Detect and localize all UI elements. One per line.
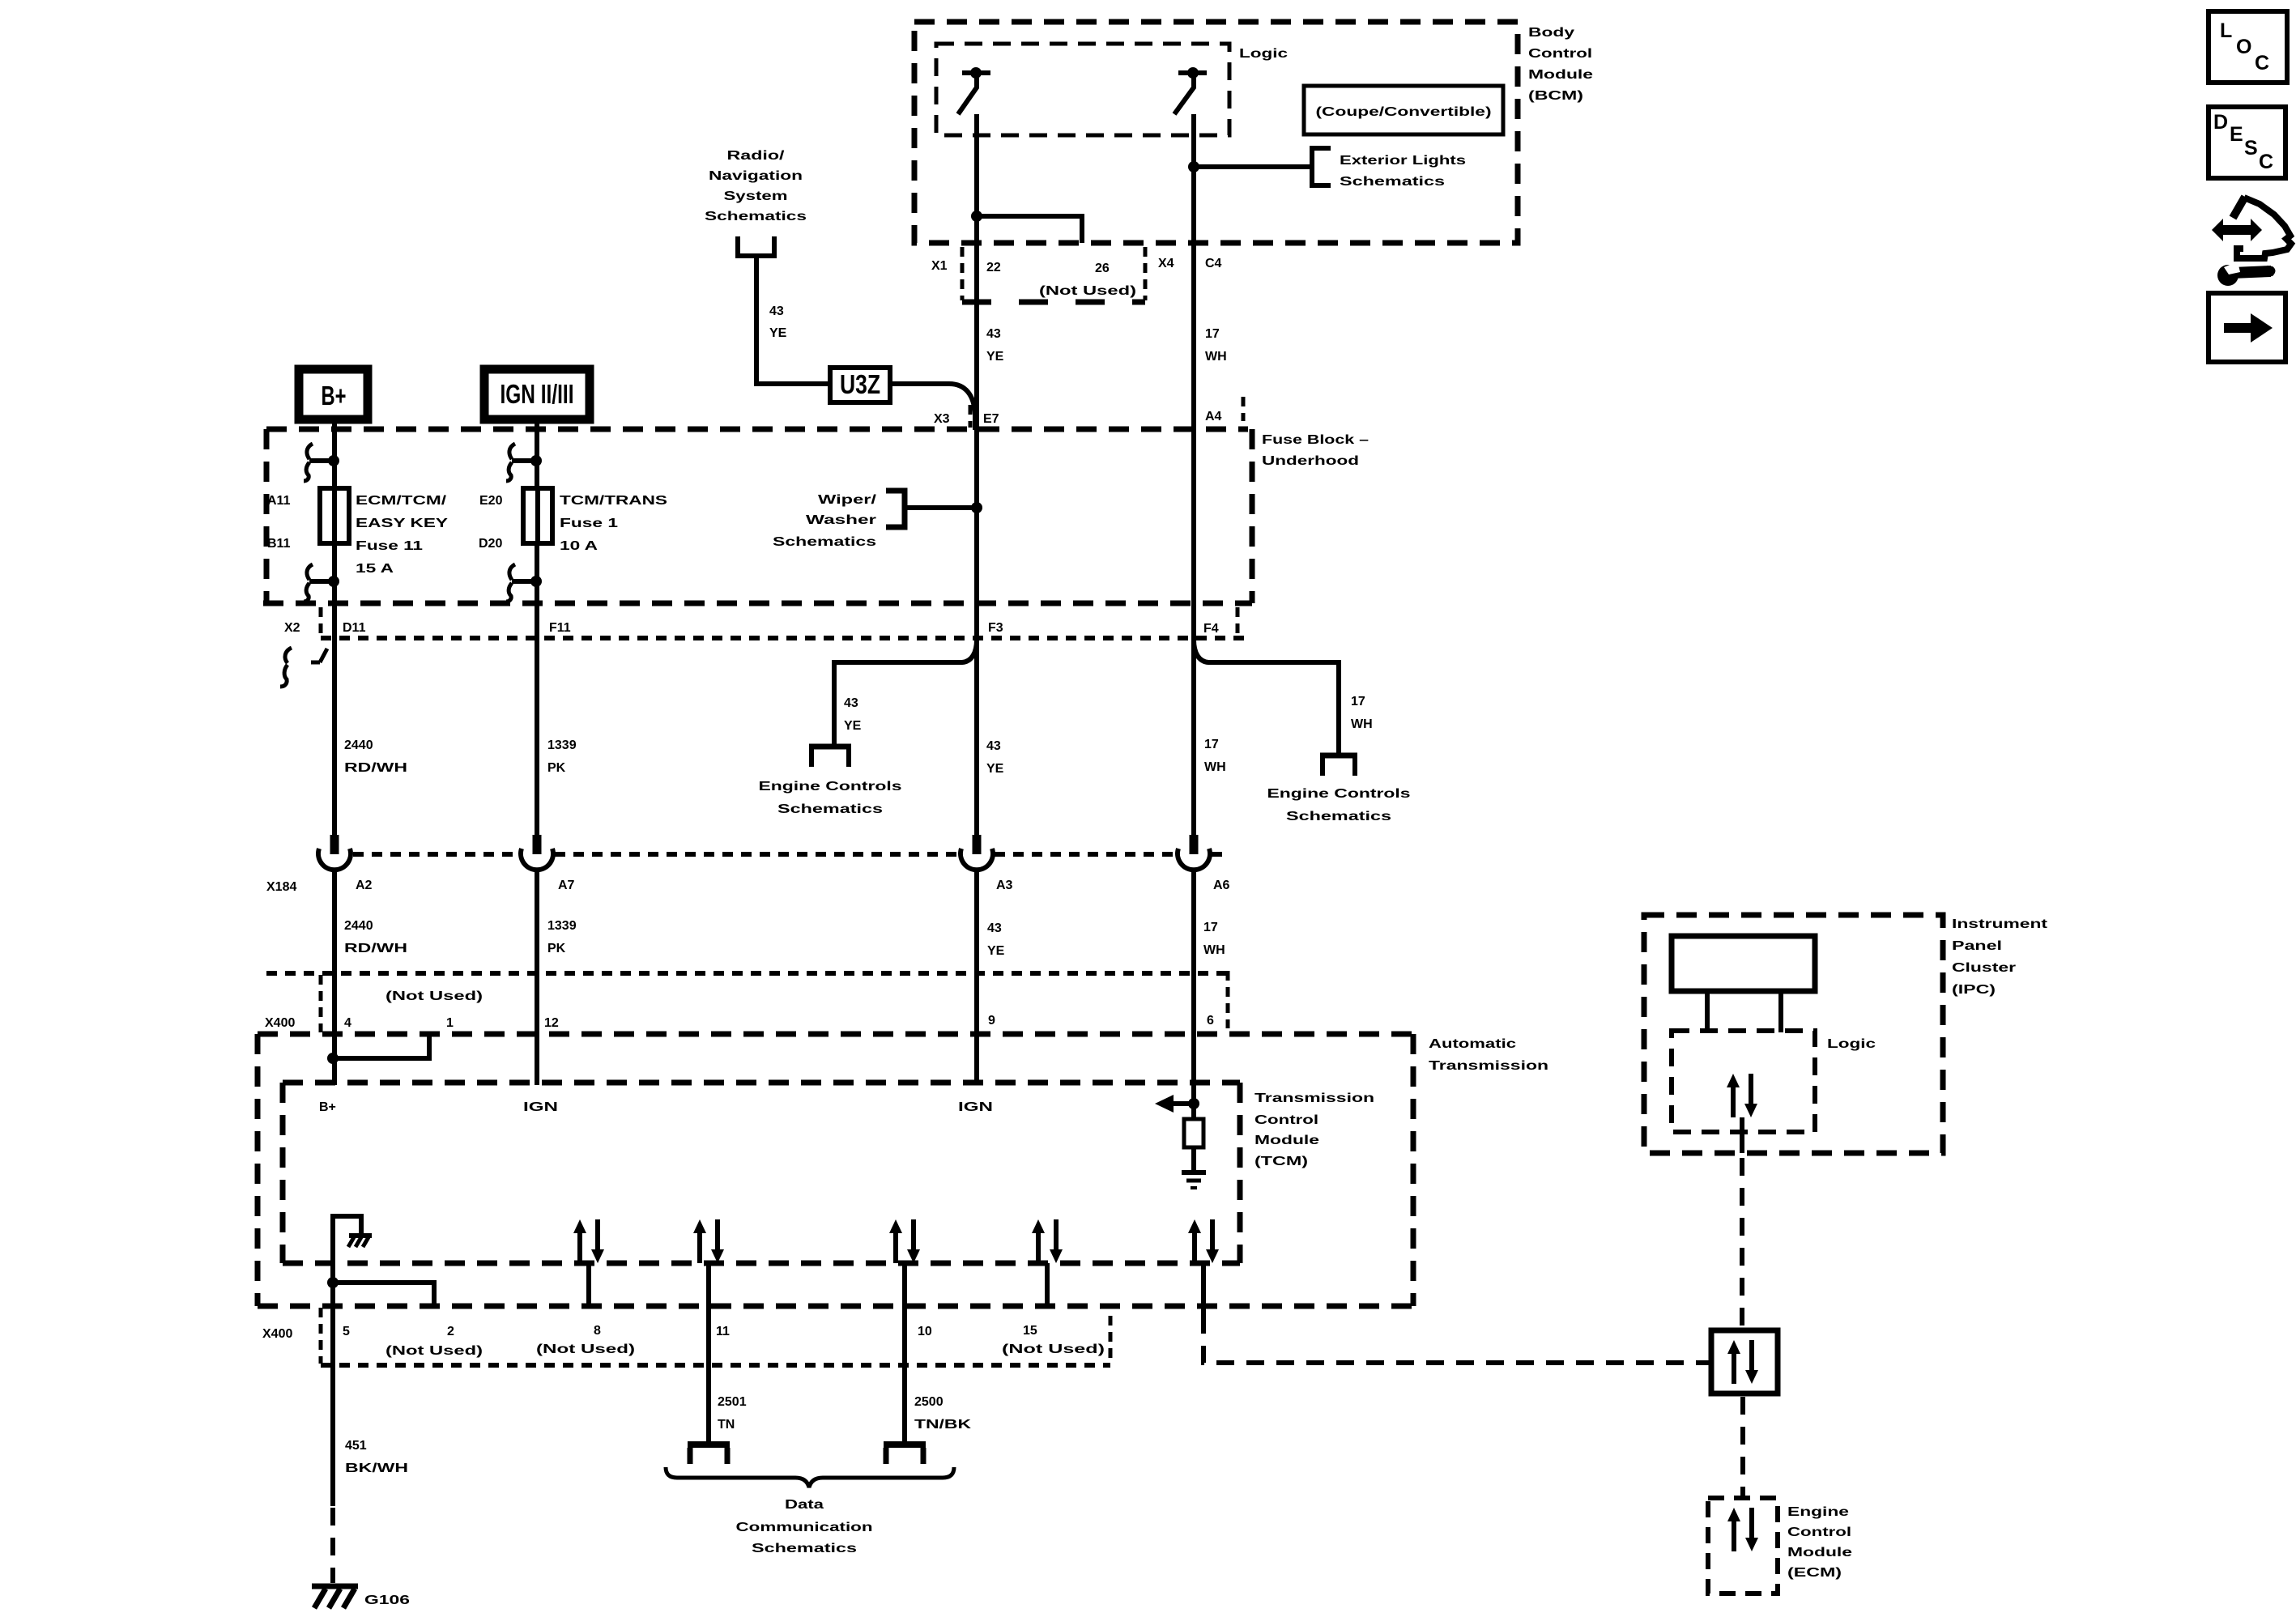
svg-text:17: 17: [1203, 921, 1218, 934]
wire stub to pin 1 (Not Used): [333, 1036, 429, 1058]
power feed B+ box: [299, 369, 368, 419]
power feed IGN II/III box: [484, 369, 590, 419]
svg-text:IGN II/III: IGN II/III: [501, 379, 574, 409]
svg-text:2: 2: [447, 1325, 454, 1338]
wire 2440 RD/WH X184 to X400: [332, 868, 337, 1085]
wire 17 WH X184 to X400-6: [1191, 868, 1196, 1085]
svg-text:2440: 2440: [344, 919, 373, 933]
wire 17 WH F4 to X184: [1191, 642, 1196, 835]
svg-text:6: 6: [1207, 1014, 1214, 1028]
svg-text:A2: A2: [356, 879, 373, 892]
node junction TCM ground: [327, 1277, 339, 1288]
svg-text:1: 1: [446, 1016, 454, 1030]
svg-text:Fuse 11: Fuse 11: [356, 539, 423, 553]
svg-text:IGN: IGN: [523, 1100, 558, 1114]
svg-text:PK: PK: [547, 942, 566, 955]
svg-text:PK: PK: [547, 761, 566, 775]
fuse F11 ECM/TCM/EASY KEY rect: [320, 488, 349, 543]
svg-text:(ECM): (ECM): [1787, 1566, 1842, 1580]
wire 43 YE inside fuse block: [974, 428, 979, 642]
wire TCM pin 10 class 2: [902, 1263, 907, 1445]
svg-text:Data: Data: [785, 1498, 824, 1512]
svg-text:2500: 2500: [914, 1395, 944, 1409]
BCM Logic dashed box: [936, 44, 1229, 135]
wire 43 YE F3 to X184: [974, 642, 979, 835]
wire IGN into fuse block: [535, 419, 539, 488]
IPC gauge legs: [1705, 991, 1710, 1032]
Automatic Transmission dashed box: [258, 1032, 1413, 1037]
svg-text:Module: Module: [1528, 68, 1593, 82]
ground TCM internal: [1182, 1170, 1206, 1175]
connector X4-A4 dotted divider: [1242, 397, 1246, 421]
off-page bracket Wiper/Washer: [886, 491, 905, 527]
svg-text:2440: 2440: [344, 738, 373, 752]
svg-text:(Not Used): (Not Used): [1039, 284, 1136, 298]
svg-text:RD/WH: RD/WH: [344, 761, 407, 775]
dashed wire gateway to ECM: [1740, 1397, 1745, 1496]
svg-text:YE: YE: [986, 350, 1004, 364]
svg-text:YE: YE: [987, 944, 1005, 958]
svg-text:17: 17: [1205, 327, 1220, 341]
switch S2 in BCM logic: [1178, 70, 1207, 75]
wire 2440 RD/WH X2 to X184: [332, 642, 337, 835]
svg-text:TN: TN: [718, 1418, 735, 1432]
svg-text:O: O: [2236, 36, 2251, 58]
svg-text:Engine: Engine: [1787, 1505, 1849, 1519]
svg-text:D: D: [2213, 111, 2228, 134]
svg-text:A7: A7: [558, 879, 575, 892]
svg-text:X400: X400: [262, 1327, 292, 1341]
svg-text:1339: 1339: [547, 738, 577, 752]
svg-text:2501: 2501: [718, 1395, 747, 1409]
svg-text:G106: G106: [364, 1594, 410, 1607]
svg-text:Engine Controls: Engine Controls: [1267, 787, 1411, 801]
svg-text:17: 17: [1204, 738, 1219, 751]
wire 43 YE BCM to fuse block: [974, 243, 979, 430]
svg-text:451: 451: [345, 1439, 367, 1453]
svg-text:F4: F4: [1203, 622, 1219, 636]
svg-text:YE: YE: [844, 719, 862, 733]
svg-text:BK/WH: BK/WH: [345, 1462, 408, 1475]
wire stub to pin 26: [977, 216, 1082, 243]
svg-text:(Coupe/Convertible): (Coupe/Convertible): [1316, 105, 1492, 119]
svg-text:Wiper/: Wiper/: [818, 493, 877, 507]
svg-text:RD/WH: RD/WH: [344, 942, 407, 955]
svg-text:X2: X2: [284, 621, 300, 635]
connector X2 row fine dashed line: [321, 636, 1247, 640]
connector X400 row 2 fine dashed line: [321, 1363, 1110, 1368]
serial data gateway box: [1711, 1330, 1778, 1394]
node junction wiper wire: [971, 502, 982, 513]
wire 17 WH inside fuse block: [1191, 428, 1196, 642]
connector X2 right dotted divider: [1236, 607, 1240, 636]
svg-text:(BCM): (BCM): [1528, 89, 1583, 103]
svg-text:43: 43: [987, 921, 1002, 935]
wire stub TCM pin 8: [586, 1263, 591, 1306]
svg-text:43: 43: [986, 327, 1001, 341]
wire 43 YE X184 to X400-9: [974, 868, 979, 1085]
svg-text:EASY KEY: EASY KEY: [356, 517, 448, 530]
arrow TCM internal left: [1170, 1101, 1192, 1106]
chassis ground TCM internal: [349, 1233, 372, 1238]
svg-text:B11: B11: [267, 537, 291, 551]
svg-text:15 A: 15 A: [356, 562, 394, 576]
svg-text:Control: Control: [1787, 1526, 1851, 1539]
svg-text:A4: A4: [1205, 410, 1222, 423]
wire resistor to ground: [1191, 1147, 1196, 1172]
svg-text:5: 5: [343, 1325, 350, 1338]
wire IGN fuse to X2-F11: [535, 543, 539, 642]
IPC gauge rect: [1672, 936, 1815, 991]
svg-text:X3: X3: [934, 412, 950, 426]
svg-text:Control: Control: [1254, 1113, 1318, 1127]
svg-text:Navigation: Navigation: [709, 169, 803, 183]
connector X184 pass-through A6: [1178, 835, 1210, 870]
svg-text:9: 9: [988, 1014, 995, 1028]
connector X400 right dotted divider row 2: [1109, 1316, 1113, 1364]
serial data arrows TCM serial out: [1188, 1219, 1219, 1263]
(Coupe/Convertible) box: [1304, 86, 1503, 134]
svg-text:C: C: [2259, 151, 2273, 173]
svg-text:Radio/: Radio/: [727, 149, 786, 163]
icon wrench: [2217, 265, 2238, 286]
svg-text:S: S: [2244, 137, 2258, 160]
terminal hook above Fuse 11: [304, 444, 330, 481]
svg-text:WH: WH: [1205, 350, 1227, 364]
connector X2 left dotted divider: [319, 607, 323, 636]
connector X184 pass-through A3: [961, 835, 993, 870]
svg-text:(Not Used): (Not Used): [386, 989, 483, 1003]
svg-text:43: 43: [986, 739, 1001, 753]
connector X1 row bottom dashed line: [962, 300, 1145, 305]
wire 43 YE from Radio bracket: [756, 256, 830, 384]
wire B+ fuse to X2-D11: [332, 543, 337, 642]
resistor TCM internal: [1184, 1119, 1203, 1147]
svg-text:C4: C4: [1205, 257, 1222, 270]
svg-text:IGN: IGN: [958, 1100, 993, 1114]
svg-text:Schematics: Schematics: [773, 535, 876, 549]
svg-text:A6: A6: [1213, 879, 1230, 892]
svg-text:8: 8: [594, 1324, 601, 1338]
off-page bracket Engine Controls right: [1320, 753, 1357, 759]
serial data arrows gateway: [1727, 1340, 1758, 1384]
svg-text:4: 4: [344, 1016, 351, 1030]
wire B+ into fuse block: [332, 419, 337, 488]
svg-text:Panel: Panel: [1952, 939, 2002, 953]
svg-text:Schematics: Schematics: [777, 802, 883, 816]
wire TCM pin 11 class 2: [706, 1263, 711, 1445]
svg-text:26: 26: [1095, 262, 1110, 275]
svg-text:ECM/TCM/: ECM/TCM/: [356, 494, 447, 508]
wire stub to pin 2 (Not Used): [333, 1283, 434, 1304]
icon DESC box: [2209, 107, 2285, 178]
svg-text:YE: YE: [986, 762, 1004, 776]
terminal hook above Fuse 1: [506, 444, 532, 481]
svg-text:L: L: [2220, 19, 2232, 42]
serial data arrows ECM: [1727, 1508, 1758, 1551]
svg-text:43: 43: [769, 304, 784, 318]
ground G106 chassis symbol: [312, 1584, 358, 1589]
off-page bracket Engine Controls left: [809, 744, 851, 750]
IPC Logic dashed box: [1672, 1031, 1815, 1132]
connector X184 pass-through A7: [521, 835, 553, 870]
svg-text:F3: F3: [988, 621, 1003, 635]
connector X3 dotted divider: [969, 405, 973, 428]
svg-text:WH: WH: [1203, 943, 1225, 957]
svg-text:43: 43: [844, 696, 858, 710]
svg-text:B+: B+: [322, 381, 347, 411]
svg-text:(Not Used): (Not Used): [386, 1344, 483, 1358]
wire stub TCM pin 15: [1045, 1263, 1050, 1306]
serial data arrows TCM pin 15: [1032, 1219, 1063, 1263]
svg-text:Logic: Logic: [1827, 1037, 1876, 1051]
Fuse Block - Underhood dashed box: [266, 427, 1248, 432]
svg-text:E7: E7: [983, 412, 999, 426]
wire Wiper/Washer to 43 YE wire: [905, 505, 977, 510]
wire U3Z to X3-E7: [890, 384, 975, 430]
connector X184 pass-through A2: [318, 835, 351, 870]
wire TCM ground to X400-5: [330, 1283, 335, 1506]
svg-text:Engine Controls: Engine Controls: [759, 780, 902, 794]
svg-text:F11: F11: [549, 621, 571, 635]
svg-text:10: 10: [918, 1325, 932, 1338]
wire 43 YE from S1 down to X1-22: [974, 114, 979, 243]
connector X1 left dotted divider: [961, 247, 965, 300]
svg-text:Schematics: Schematics: [752, 1542, 857, 1555]
svg-text:Module: Module: [1787, 1546, 1852, 1560]
switch S1 in BCM logic: [962, 70, 990, 75]
svg-text:(Not Used): (Not Used): [536, 1343, 635, 1356]
connector X400 left dotted divider row 2: [319, 1308, 323, 1364]
svg-text:Washer: Washer: [806, 513, 876, 527]
icon connector outline: [2233, 197, 2245, 218]
wire 17 WH BCM to fuse block: [1191, 243, 1196, 430]
svg-text:Exterior Lights: Exterior Lights: [1340, 154, 1466, 168]
terminal hook below Fuse 1: [506, 564, 532, 602]
svg-text:Transmission: Transmission: [1429, 1059, 1548, 1073]
wire 17 WH into TCM: [1191, 1085, 1196, 1119]
svg-text:Control: Control: [1528, 47, 1592, 61]
svg-text:X400: X400: [265, 1016, 295, 1030]
svg-text:(Not Used): (Not Used): [1002, 1343, 1105, 1356]
svg-text:22: 22: [986, 261, 1001, 274]
svg-text:B+: B+: [319, 1100, 336, 1114]
splice U3Z box: [830, 368, 890, 402]
terminal bracket wire 11: [688, 1441, 730, 1448]
connector X400 right dotted divider row 1: [1226, 971, 1230, 1028]
svg-text:Communication: Communication: [736, 1521, 873, 1534]
svg-text:E: E: [2230, 123, 2243, 146]
svg-text:Transmission: Transmission: [1254, 1091, 1374, 1105]
wire 17 WH branch to Engine Controls: [1194, 640, 1339, 755]
svg-text:X184: X184: [266, 880, 296, 894]
svg-text:Module: Module: [1254, 1134, 1319, 1147]
svg-text:D20: D20: [479, 537, 502, 551]
svg-text:Fuse Block –: Fuse Block –: [1262, 433, 1369, 447]
wire 43 YE branch to Engine Controls: [834, 640, 977, 747]
off-page bracket Radio/Navigation: [738, 236, 774, 256]
svg-text:Body: Body: [1528, 26, 1574, 40]
svg-text:Schematics: Schematics: [1286, 810, 1391, 823]
svg-text:Automatic: Automatic: [1429, 1037, 1516, 1051]
Body Control Module (BCM) dashed box: [914, 22, 1518, 243]
wire IPC logic stub: [1740, 1117, 1744, 1153]
svg-text:1339: 1339: [547, 919, 577, 933]
svg-text:WH: WH: [1204, 760, 1226, 774]
svg-text:TN/BK: TN/BK: [914, 1418, 972, 1432]
svg-text:E20: E20: [479, 494, 503, 508]
wire 17 WH from S2 down to X4-C4: [1191, 114, 1196, 243]
icon LOC box: [2209, 11, 2287, 83]
svg-text:10 A: 10 A: [560, 539, 598, 553]
dashed wire TCM serial to gateway: [1203, 1316, 1711, 1363]
serial data arrows TCM pin 10: [889, 1219, 920, 1263]
wire BCM S2 to Exterior Lights: [1194, 164, 1310, 169]
wire 1339 PK X184 to X400: [535, 868, 539, 1085]
fuse F1 TCM/TRANS rect: [523, 488, 552, 543]
connector X400 row 1 fine dashed line: [266, 971, 1228, 976]
svg-text:U3Z: U3Z: [840, 369, 880, 399]
Instrument Panel Cluster (IPC) dashed box: [1644, 915, 1943, 1153]
svg-text:Schematics: Schematics: [1340, 175, 1445, 189]
svg-text:System: System: [724, 189, 788, 203]
node junction pin 1 stub: [327, 1053, 339, 1064]
brace data communication: [666, 1467, 954, 1487]
svg-text:Logic: Logic: [1239, 47, 1288, 61]
svg-text:Underhood: Underhood: [1262, 454, 1359, 468]
svg-text:WH: WH: [1351, 717, 1373, 731]
icon forward arrow box: [2209, 293, 2285, 362]
icon connector view double arrow: [2212, 219, 2262, 241]
terminal hook below Fuse 11: [304, 564, 330, 602]
svg-text:D11: D11: [343, 621, 366, 635]
Transmission Control Module (TCM) dashed box: [283, 1080, 1240, 1086]
connector X1 right dotted divider: [1144, 247, 1148, 300]
terminal hook X2: [280, 648, 292, 687]
svg-text:17: 17: [1351, 695, 1365, 709]
serial data arrows IPC logic: [1727, 1074, 1757, 1117]
terminal bracket wire 10: [884, 1441, 926, 1448]
serial data arrows TCM pin 8: [573, 1219, 604, 1263]
connector X400 left dotted divider row 1: [319, 975, 323, 1032]
svg-text:X4: X4: [1158, 257, 1174, 270]
svg-text:15: 15: [1023, 1324, 1037, 1338]
serial data arrows TCM pin 11: [693, 1219, 724, 1263]
off-page bracket Exterior Lights: [1312, 148, 1331, 185]
node junction 26 stub: [971, 211, 982, 222]
svg-text:12: 12: [544, 1016, 559, 1030]
svg-text:X1: X1: [931, 259, 948, 273]
wire 1339 PK X2 to X184: [535, 642, 539, 835]
svg-text:TCM/TRANS: TCM/TRANS: [560, 494, 667, 508]
svg-text:(TCM): (TCM): [1254, 1155, 1308, 1168]
svg-text:A3: A3: [996, 879, 1013, 892]
wire TCM serial out solid part: [1201, 1263, 1206, 1316]
connector X184 row dashed line: [353, 852, 519, 857]
dashed wire 451 to G106: [330, 1508, 335, 1583]
dashed wire IPC to gateway: [1740, 1158, 1744, 1328]
Engine Control Module (ECM) dashed box: [1708, 1498, 1778, 1594]
svg-text:11: 11: [716, 1325, 730, 1338]
node junction TCM sense: [1188, 1098, 1199, 1109]
svg-text:(IPC): (IPC): [1952, 983, 1996, 997]
TCM internal ground wire: [333, 1216, 361, 1283]
svg-text:Instrument: Instrument: [1952, 917, 2048, 931]
svg-text:A11: A11: [267, 494, 291, 508]
svg-text:YE: YE: [769, 326, 787, 340]
svg-text:Fuse 1: Fuse 1: [560, 517, 618, 530]
svg-text:Schematics: Schematics: [705, 210, 807, 223]
svg-text:Cluster: Cluster: [1952, 961, 2016, 975]
svg-text:C: C: [2255, 52, 2269, 74]
